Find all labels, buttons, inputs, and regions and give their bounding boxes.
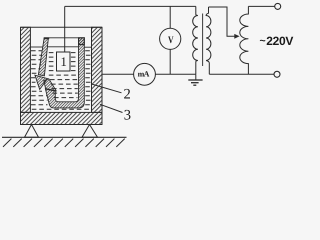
bath liquid level line right: [84, 46, 91, 48]
wire autotransformer top to terminal: [248, 5, 274, 7]
transformer T1 core: [202, 14, 204, 67]
stand leg left: [25, 125, 39, 138]
stand leg right: [82, 125, 98, 138]
transformer T1 secondary winding right: [206, 7, 211, 74]
milliammeter mA: [134, 63, 156, 85]
inner vessel left wall: [38, 38, 49, 76]
wire milliammeter to transformer bottom junction: [155, 73, 195, 75]
svg-text:2: 2: [124, 86, 131, 102]
svg-text:~: ~: [260, 35, 266, 47]
vessel liquid level line: [47, 46, 78, 48]
label 3 pointer line: [100, 104, 123, 112]
wire top rail: [65, 5, 196, 7]
wire bottom rail to terminal: [209, 73, 274, 75]
vessel rim cap right: [79, 38, 85, 45]
floor line: [2, 136, 127, 138]
autotransformer winding: [240, 6, 249, 74]
ground: [188, 74, 202, 85]
bath bottom: [21, 112, 103, 124]
terminal bottom right: [274, 71, 280, 77]
wire voltmeter branch top: [169, 6, 171, 28]
svg-text:3: 3: [124, 107, 131, 123]
liquid dashes bath: [31, 51, 91, 110]
tap arrow on autotransformer: [234, 34, 239, 39]
bath top rim line: [21, 26, 103, 28]
svg-text:220V: 220V: [266, 34, 293, 48]
bath liquid level line left: [30, 46, 43, 48]
svg-text:V: V: [168, 35, 174, 46]
svg-text:1: 1: [60, 54, 67, 69]
label 3: [124, 107, 131, 123]
bath outer wall right: [92, 27, 103, 112]
wire from electrode box 1 up to top rail: [64, 6, 66, 52]
inner vessel U-tube wall: [45, 38, 84, 108]
wire voltmeter branch bottom: [169, 49, 171, 74]
electrode box 1: [57, 52, 71, 71]
label 2 pointer line: [92, 84, 122, 93]
label ~220V: [260, 34, 294, 48]
wire from bath to milliammeter: [102, 73, 133, 75]
floor hatching: [3, 139, 125, 147]
svg-text:mA: mA: [138, 69, 150, 78]
liquid dashes electrolyte inside vessel: [49, 53, 78, 98]
vessel lid line: [44, 37, 78, 39]
voltmeter V: [160, 28, 181, 49]
terminal top right: [275, 3, 281, 9]
wire secondary top to tap arrow: [209, 7, 235, 36]
vessel fold connector band: [44, 79, 56, 91]
vessel fold arrowhead: [35, 75, 48, 89]
bath outer wall left: [21, 27, 31, 112]
transformer T1 primary winding left: [193, 6, 198, 74]
label 2: [124, 86, 131, 102]
